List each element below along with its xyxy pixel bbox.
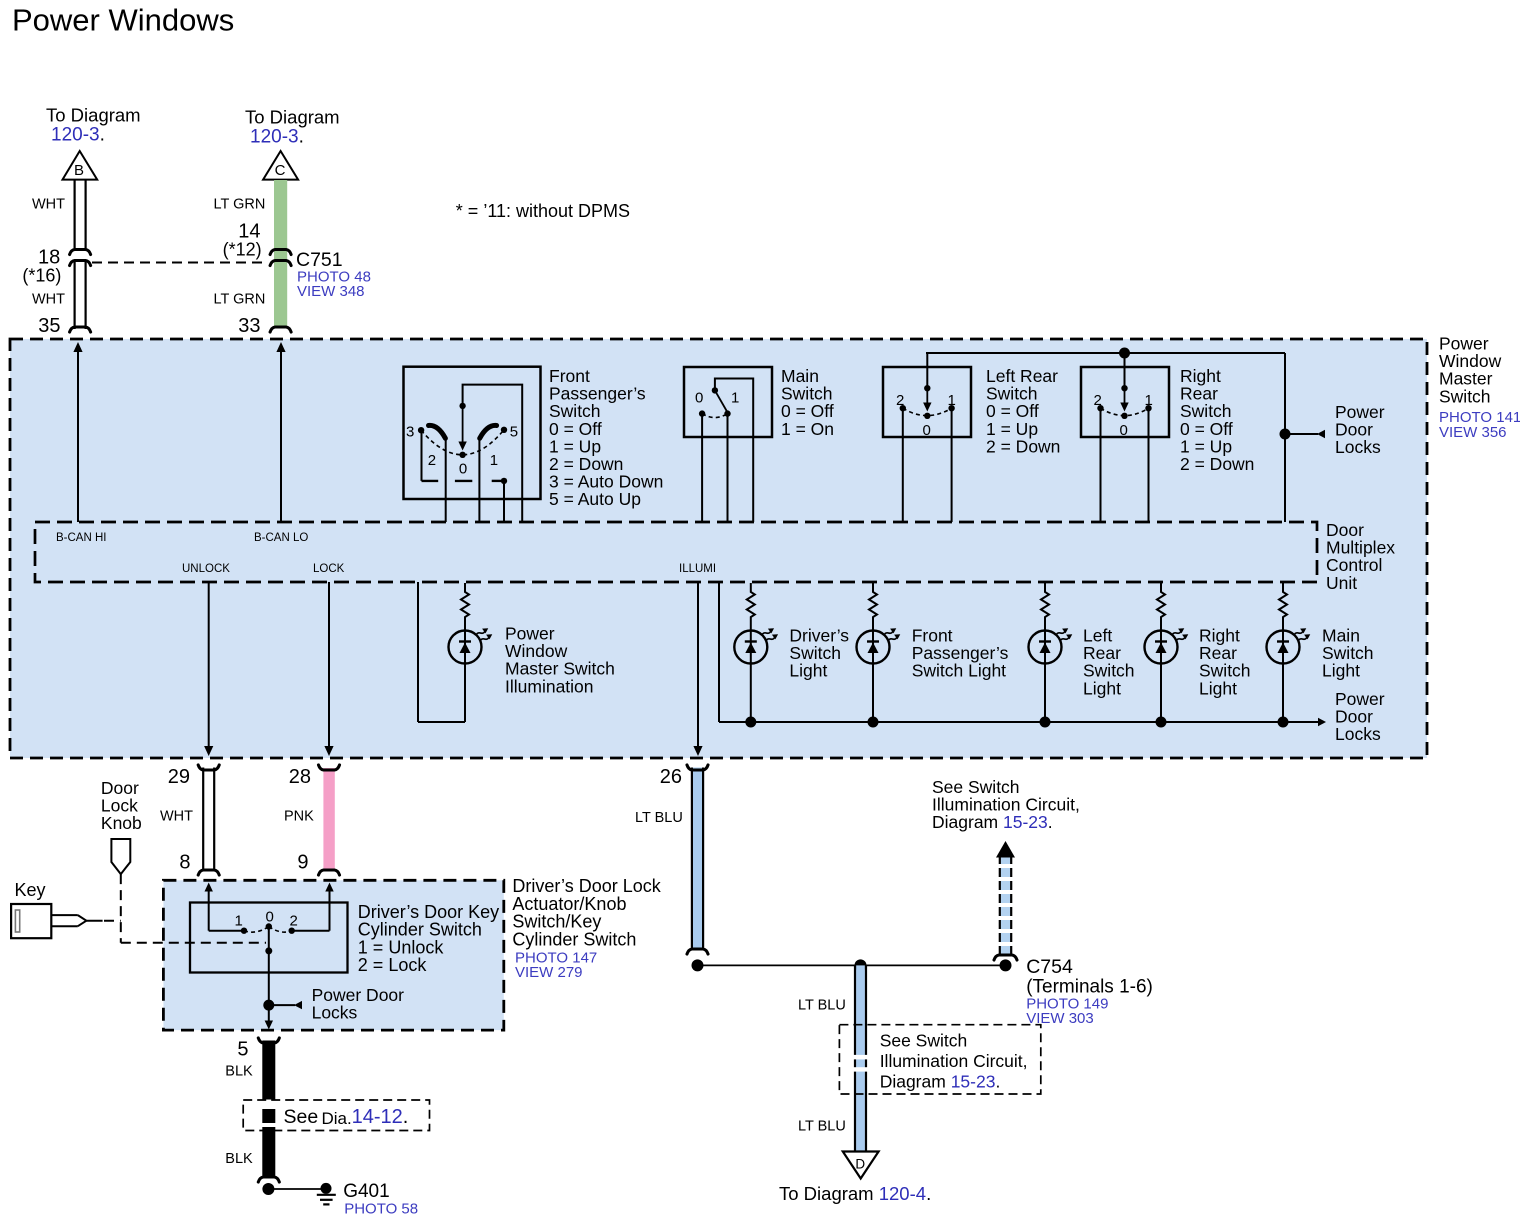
svg-text:Cylinder Switch: Cylinder Switch <box>512 929 636 949</box>
svg-text:B-CAN HI: B-CAN HI <box>56 532 106 544</box>
svg-text:To Diagram: To Diagram <box>46 105 141 126</box>
svg-text:VIEW 279: VIEW 279 <box>515 964 583 981</box>
svg-text:PNK: PNK <box>284 809 314 825</box>
svg-text:Knob: Knob <box>101 813 142 833</box>
svg-text:UNLOCK: UNLOCK <box>182 563 230 575</box>
svg-text:5: 5 <box>237 1039 248 1061</box>
svg-text:Unit: Unit <box>1326 573 1357 593</box>
svg-text:5 = Auto Up: 5 = Auto Up <box>549 489 641 509</box>
svg-text:29: 29 <box>168 766 190 788</box>
svg-text:G401: G401 <box>343 1181 389 1202</box>
svg-text:Key: Key <box>15 880 46 900</box>
svg-text:0: 0 <box>459 461 467 478</box>
svg-text:5: 5 <box>510 424 518 441</box>
svg-text:C754: C754 <box>1026 956 1073 978</box>
svg-text:ILLUMI: ILLUMI <box>679 563 716 575</box>
svg-text:VIEW 348: VIEW 348 <box>297 283 365 300</box>
svg-text:2 = Down: 2 = Down <box>986 436 1060 456</box>
svg-text:Diagram 15-23.: Diagram 15-23. <box>932 812 1053 832</box>
svg-text:LT BLU: LT BLU <box>798 1119 846 1135</box>
svg-text:See Switch: See Switch <box>880 1031 968 1051</box>
svg-text:Switch Light: Switch Light <box>912 661 1006 681</box>
svg-text:1: 1 <box>1145 392 1153 409</box>
svg-text:WHT: WHT <box>32 197 65 213</box>
svg-text:Light: Light <box>789 661 827 681</box>
svg-text:35: 35 <box>38 315 60 337</box>
svg-text:D: D <box>855 1157 865 1172</box>
svg-text:1: 1 <box>490 452 498 469</box>
svg-text:Locks: Locks <box>1335 724 1381 744</box>
svg-text:1 = On: 1 = On <box>781 419 834 439</box>
svg-text:LT GRN: LT GRN <box>214 197 266 213</box>
svg-text:0: 0 <box>923 422 931 439</box>
svg-text:Switch: Switch <box>1439 386 1491 406</box>
svg-text:1: 1 <box>731 390 739 407</box>
svg-text:(Terminals 1-6): (Terminals 1-6) <box>1026 977 1153 998</box>
svg-text:BLK: BLK <box>225 1151 253 1167</box>
svg-text:Light: Light <box>1322 661 1360 681</box>
svg-text:(*16): (*16) <box>22 266 61 286</box>
svg-text:C: C <box>275 162 286 179</box>
svg-text:2 = Down: 2 = Down <box>1180 454 1254 474</box>
svg-text:(*12): (*12) <box>223 240 262 260</box>
svg-text:2 = Lock: 2 = Lock <box>358 955 428 975</box>
svg-text:1: 1 <box>948 392 956 409</box>
svg-text:9: 9 <box>297 852 308 874</box>
svg-text:33: 33 <box>238 315 260 337</box>
svg-text:26: 26 <box>660 766 682 788</box>
svg-text:0: 0 <box>695 390 703 407</box>
svg-text:Diagram 15-23.: Diagram 15-23. <box>880 1072 1001 1092</box>
svg-text:PHOTO 58: PHOTO 58 <box>344 1201 418 1218</box>
svg-text:2: 2 <box>428 452 436 469</box>
svg-text:Locks: Locks <box>1335 437 1381 457</box>
svg-text:* = ’11: without DPMS: * = ’11: without DPMS <box>456 201 630 221</box>
svg-text:3: 3 <box>406 424 414 441</box>
svg-text:BLK: BLK <box>225 1064 253 1080</box>
svg-text:B-CAN LO: B-CAN LO <box>254 532 308 544</box>
svg-text:Dia.: Dia. <box>322 1109 352 1128</box>
svg-text:See: See <box>284 1106 319 1128</box>
svg-text:WHT: WHT <box>32 292 65 308</box>
svg-text:2: 2 <box>1094 392 1102 409</box>
svg-text:To Diagram: To Diagram <box>245 107 340 128</box>
svg-text:0: 0 <box>266 909 274 926</box>
svg-text:Illumination Circuit,: Illumination Circuit, <box>880 1051 1028 1071</box>
svg-text:VIEW 356: VIEW 356 <box>1439 424 1507 441</box>
svg-text:B: B <box>74 162 84 179</box>
svg-text:LT GRN: LT GRN <box>214 292 266 308</box>
svg-text:120-3.: 120-3. <box>51 125 105 146</box>
svg-text:Power Windows: Power Windows <box>12 3 234 38</box>
svg-text:WHT: WHT <box>160 809 193 825</box>
svg-text:1: 1 <box>235 913 243 930</box>
svg-text:2: 2 <box>896 392 904 409</box>
svg-text:Light: Light <box>1199 678 1237 698</box>
svg-text:Locks: Locks <box>312 1002 358 1022</box>
svg-text:LT BLU: LT BLU <box>798 998 846 1014</box>
svg-text:8: 8 <box>179 852 190 874</box>
svg-text:LT BLU: LT BLU <box>635 810 683 826</box>
svg-text:120-3.: 120-3. <box>250 127 304 148</box>
svg-text:Illumination: Illumination <box>505 676 594 696</box>
svg-text:28: 28 <box>289 766 311 788</box>
svg-text:14-12.: 14-12. <box>352 1106 409 1128</box>
svg-text:2: 2 <box>290 913 298 930</box>
svg-text:LOCK: LOCK <box>313 563 345 575</box>
svg-text:Light: Light <box>1083 678 1121 698</box>
svg-text:0: 0 <box>1120 422 1128 439</box>
svg-text:To Diagram 120-4.: To Diagram 120-4. <box>779 1183 931 1204</box>
